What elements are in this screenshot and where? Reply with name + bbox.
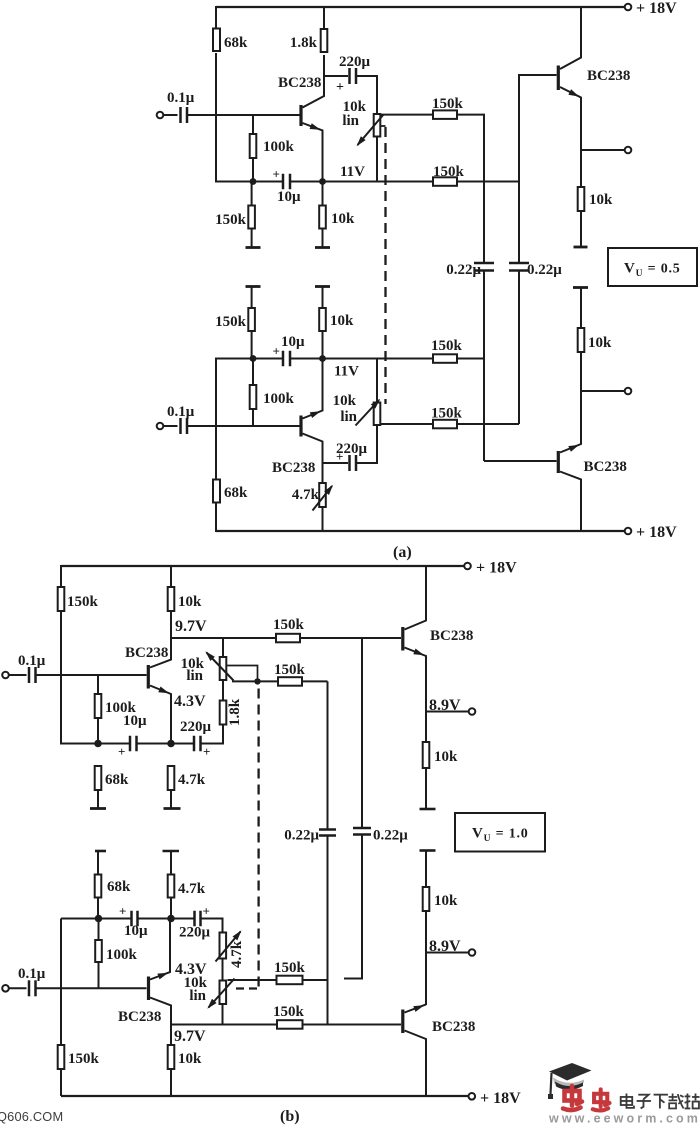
svg-text:lin: lin [189, 988, 206, 1004]
svg-text:+: + [336, 449, 343, 464]
label BC238 Q3 [587, 68, 630, 84]
resistor R9 150k vertical (a bottom) [215, 287, 255, 359]
rheostat R30 arrow [216, 930, 242, 961]
wire emitter to 10k (b right top) [425, 712, 427, 743]
dashed gang line (b) [236, 689, 259, 989]
svg-text:10k: 10k [330, 313, 354, 329]
label 9.7V (b top) [175, 618, 207, 635]
wire row to 4.7k pot (b bottom) [201, 919, 223, 934]
resistor R21 68k (b top) [95, 766, 129, 809]
wire 68k to bias node (a top) [215, 53, 217, 183]
terminal +18V bottom (a) [625, 524, 677, 541]
transistor Q3 collector lead [560, 6, 581, 69]
svg-text:10k: 10k [331, 211, 355, 227]
node bias row dot 2 (a top) [319, 178, 326, 185]
svg-text:4.7k: 4.7k [229, 940, 245, 968]
ground bar (a top left) [246, 246, 261, 249]
svg-text:BC238: BC238 [587, 68, 630, 84]
svg-text:150k: 150k [431, 406, 463, 422]
resistor R20 100k (b top) [95, 675, 137, 744]
svg-text:1.8k: 1.8k [290, 35, 318, 51]
transistor Q1 collector lead [303, 55, 325, 108]
svg-text:150k: 150k [215, 314, 247, 330]
resistor R4 150k (a top wiper row) [432, 96, 464, 119]
ground bar (b right bottom) [420, 849, 436, 852]
svg-text:0.22μ: 0.22μ [284, 828, 319, 844]
wire input to cap (b bottom) [9, 987, 27, 989]
svg-text:10k: 10k [589, 192, 613, 208]
node bias row dot 2 (a bottom) [319, 355, 326, 362]
label BC238 Q4 [584, 459, 627, 475]
resistor R16 10k (a right bottom) [578, 288, 612, 392]
transistor Q6 collector lead [405, 565, 427, 630]
wire 150k row 2 (b top) [232, 680, 328, 682]
wire 10k to ground (b right top) [425, 768, 427, 809]
resistor R1 68k (a top) [213, 29, 248, 52]
wire ground to 10k (b right bottom) [425, 851, 427, 888]
wire base feed bottom-right transistor (a) [484, 460, 557, 462]
wire coupling column right lower (b) [344, 835, 362, 979]
svg-text:+ 18V: + 18V [480, 1090, 521, 1107]
transistor Q2 collector lead [303, 434, 323, 464]
svg-text:BC238: BC238 [432, 1019, 475, 1035]
ground bar (a top mid) [315, 246, 330, 249]
svg-text:Q606.COM: Q606.COM [0, 1109, 63, 1124]
svg-text:www.eeworm.com: www.eeworm.com [548, 1112, 700, 1126]
node bias row dot 1 (a top) [250, 178, 257, 185]
resistor R5 150k (a top bias row) [433, 164, 465, 186]
output tap wire (b top) [426, 711, 469, 713]
svg-text:10μ: 10μ [124, 923, 148, 939]
wire cap to base (b bottom) [36, 987, 147, 989]
svg-text:10μ: 10μ [277, 189, 301, 205]
resistor R13 68k (a bottom) [213, 480, 248, 533]
label BC238 Q5 [125, 645, 168, 661]
transistor Q8 emitter lead [150, 918, 170, 980]
label BC238 Q8 [118, 1009, 161, 1025]
output terminal (b bottom) [469, 949, 476, 956]
svg-text:150k: 150k [431, 338, 463, 354]
svg-text:BC238: BC238 [118, 1009, 161, 1025]
wire bias row right segment (a top) [290, 181, 433, 183]
svg-text:BC238: BC238 [125, 645, 168, 661]
svg-text:(b): (b) [280, 1108, 300, 1125]
svg-text:150k: 150k [67, 594, 99, 610]
wire pot to 1.8k (b top) [222, 681, 224, 701]
terminal +18V bottom (b) [469, 1090, 522, 1107]
wire 220u to pot bottom (a bottom) [356, 425, 377, 464]
svg-text:150k: 150k [433, 164, 465, 180]
svg-text:0.22μ: 0.22μ [446, 262, 481, 278]
svg-text:0.1μ: 0.1μ [167, 90, 195, 106]
svg-text:9.7V: 9.7V [175, 618, 207, 635]
wire +18V top rail (b) [61, 565, 464, 567]
ground bar (b top mid) [164, 807, 181, 810]
resistor R12 100k (a bottom) [250, 359, 295, 427]
wire input to cap (b top) [9, 674, 27, 676]
svg-text:150k: 150k [432, 96, 464, 112]
resistor R31 150k (b row3) [274, 960, 306, 984]
output terminal (b top) [469, 708, 476, 715]
wire cap column left lower (a) [483, 271, 485, 462]
capacitor C5 0.22u right (a) [509, 182, 562, 279]
capacitor C4 0.22u left (a) [446, 262, 494, 278]
watermark logo graduation cap [548, 1063, 592, 1099]
resistor R34 10k (b bottom mid) [168, 1025, 202, 1098]
svg-text:150k: 150k [274, 960, 306, 976]
box Vu=1.0 (b) [455, 813, 545, 852]
svg-text:+ 18V: + 18V [636, 0, 677, 17]
output terminal (a top) [625, 147, 632, 154]
ground bar (b top left) [90, 807, 106, 810]
wire emitter to 10k (a right top) [580, 150, 582, 188]
transistor Q5 BC238 (b top left) base bar [147, 665, 150, 689]
resistor R10 10k vertical (a bottom) [319, 287, 354, 359]
wire collector node to 220u (a bottom) [323, 462, 349, 464]
output tap wire (a top) [581, 149, 625, 151]
resistor R26 10k (b right bottom) [423, 887, 458, 911]
transistor Q3 BC238 (a right top) base bar [557, 66, 560, 91]
label 8.9V (b top) [429, 697, 461, 714]
svg-text:10μ: 10μ [123, 713, 147, 729]
node bias row dot 1 (a bottom) [250, 355, 257, 362]
svg-text:10k: 10k [588, 335, 612, 351]
terminal +18V top (b) [464, 560, 517, 577]
node dot 1 (b top row) [94, 740, 102, 748]
capacitor C7 220u (a bottom) [336, 441, 368, 471]
svg-text:+ 18V: + 18V [476, 560, 517, 577]
transistor Q7 emitter lead [405, 1005, 427, 1013]
transistor Q7 BC238 (b bottom right) base bar [401, 1010, 404, 1034]
transistor Q5 emitter lead [150, 686, 171, 745]
label BC238 Q6 [430, 628, 473, 644]
ground bar (a right top) [574, 246, 588, 249]
svg-text:10k: 10k [434, 893, 458, 909]
svg-text:0.1μ: 0.1μ [18, 966, 46, 982]
svg-text:+: + [118, 744, 125, 759]
wire pot bottom to bias row (a top) [376, 136, 378, 182]
svg-text:150k: 150k [273, 1004, 305, 1020]
svg-text:220μ: 220μ [180, 719, 212, 735]
svg-text:10k: 10k [178, 1051, 202, 1067]
label BC238 Q2 [272, 460, 315, 476]
dashed gang line (a) [381, 126, 386, 404]
ground bar (a right bottom) [573, 286, 588, 289]
capacitor 0.1u input (a top) [167, 90, 195, 123]
node dot 2 (b top row) [167, 740, 175, 748]
input terminal (a top) [157, 112, 164, 119]
svg-text:150k: 150k [274, 662, 306, 678]
svg-text:1.8k: 1.8k [227, 698, 243, 726]
label BC238 Q7 [432, 1019, 475, 1035]
svg-text:150k: 150k [273, 617, 305, 633]
watermark bug glyph 2 [593, 1089, 610, 1110]
capacitor 0.1u input (b top) [18, 653, 46, 683]
resistor R25 10k (b right top) [423, 742, 458, 768]
potentiometer P2 10k lin (a bottom) [333, 393, 381, 425]
node wiper dot (b top) [254, 678, 260, 684]
node dot 1 (b bottom row) [95, 915, 103, 923]
label 4.3V (b top) [174, 693, 206, 710]
wire 220u to pot top (a top) [356, 76, 377, 115]
transistor Q5 collector lead [150, 637, 171, 668]
label 8.9V (b bottom) [429, 938, 461, 955]
svg-text:+: + [336, 80, 344, 95]
ground bar (b bottom 68k) [95, 850, 106, 853]
transistor Q8 BC238 (b bottom left) base bar [147, 977, 150, 1001]
svg-text:150k: 150k [68, 1051, 100, 1067]
wire bias row right segment (a bottom) [290, 358, 433, 360]
svg-text:VU = 0.5: VU = 0.5 [624, 261, 681, 280]
resistor R3 1.8k (a top) [290, 6, 327, 52]
svg-text:68k: 68k [107, 879, 131, 895]
svg-text:+: + [273, 167, 280, 182]
svg-text:68k: 68k [224, 485, 248, 501]
capacitor 0.1u input (a bottom) [167, 404, 195, 434]
svg-text:10k: 10k [178, 594, 202, 610]
resistor R18 10k (b top) [168, 587, 202, 611]
rheostat R30 4.7k pot (b bottom) [220, 933, 246, 969]
resistor R27 150k (b row4) [273, 1004, 305, 1029]
svg-text:10k: 10k [434, 749, 458, 765]
svg-text:+: + [203, 744, 210, 759]
wire input to cap (a bottom) [164, 425, 178, 427]
potentiometer P3 10k lin (b top) [181, 656, 227, 684]
transistor Q3 emitter lead [560, 87, 581, 150]
wire +18V top rail (a) [216, 6, 628, 8]
resistor R8 10k (a right top) [578, 187, 613, 211]
transistor Q4 BC238 (a right bottom) base bar [557, 451, 560, 473]
watermark url www.eeworm.com [548, 1112, 700, 1126]
svg-text:220μ: 220μ [339, 54, 371, 70]
svg-text:68k: 68k [105, 772, 129, 788]
capacitor C9 220u (b top) [180, 719, 212, 759]
wire coupling column left (b) [327, 681, 329, 829]
capacitor C8 10u (b top) [118, 713, 147, 759]
capacitor C2 220u (a top) [336, 54, 371, 95]
pot P3 wiper arrow [205, 651, 233, 680]
output terminal (a bottom) [625, 388, 632, 395]
svg-text:lin: lin [342, 113, 359, 129]
capacitor C12 10u (b bottom) [119, 904, 148, 940]
potentiometer P1 10k lin (a top) [342, 99, 380, 137]
wire collector node to 220u (a top) [324, 75, 348, 77]
transistor Q2 emitter lead [303, 358, 323, 419]
wire coupling column left lower (b) [327, 836, 329, 1025]
svg-text:100k: 100k [263, 391, 295, 407]
terminal +18V top (a) [625, 0, 677, 17]
svg-text:11V: 11V [334, 364, 359, 380]
wire 4.7k pot to 10k pot (b bottom) [222, 959, 224, 982]
wire cap column right lower (a) [518, 271, 520, 425]
capacitor C10 0.22u left (b) [284, 828, 336, 844]
wire rail to 150k (b top left) [60, 565, 62, 588]
svg-text:0.22μ: 0.22μ [373, 828, 408, 844]
svg-text:10k: 10k [333, 393, 357, 409]
svg-text:BC238: BC238 [584, 459, 627, 475]
capacitor C3 10u (a top) [273, 167, 302, 206]
svg-text:4.3V: 4.3V [175, 961, 207, 978]
node dot 2 (b bottom row) [167, 915, 175, 923]
svg-text:BC238: BC238 [430, 628, 473, 644]
ground bar (a bottom left) [246, 285, 261, 288]
resistor R32 100k (b bottom) [95, 919, 137, 989]
wire input to cap (a top) [164, 114, 178, 116]
resistor R11 150k (a bottom bias row) [431, 338, 463, 363]
wire 150k to coupling cap column [457, 115, 484, 263]
input terminal (b top) [2, 672, 9, 679]
wire pot top to bias row (a bottom) [376, 359, 378, 404]
svg-text:68k: 68k [224, 35, 248, 51]
resistor R14 150k (a bottom wiper row) [431, 406, 463, 429]
svg-text:11V: 11V [340, 164, 365, 180]
box Vu=0.5 (a) [608, 248, 697, 286]
input terminal (b bottom) [2, 985, 9, 992]
transistor Q8 collector lead [150, 998, 171, 1026]
svg-text:10μ: 10μ [281, 334, 305, 350]
transistor Q6 emitter lead [405, 648, 427, 712]
resistor R23 1.8k (b top) [220, 698, 243, 726]
wire emitter node row (b top) [61, 743, 223, 745]
transistor Q2 BC238 (a bottom) base bar [299, 416, 302, 437]
transistor Q1 emitter lead [303, 123, 323, 182]
wire 150k column (b top left) [60, 612, 62, 745]
resistor R28 68k (b bottom) [95, 851, 131, 919]
ground bar (b right top) [420, 808, 436, 811]
wire 9.7V row to pot (b top) [222, 638, 224, 658]
wire left rail branch x=216 (a top) [215, 6, 217, 29]
wire base feed top-right transistor (a) [519, 75, 557, 182]
resistor R7 10k vertical (a top) [319, 182, 355, 248]
capacitor 0.1u input (b bottom) [18, 966, 46, 996]
resistor R6 150k vertical (a top) [215, 182, 255, 248]
svg-text:+ 18V: + 18V [636, 524, 677, 541]
wire bias row to base column (a top) [457, 181, 519, 183]
wiper feed wire (b top) [226, 666, 257, 682]
rheostat R15 arrow [313, 485, 334, 511]
wire cap to base (b top) [36, 674, 147, 676]
svg-text:220μ: 220μ [179, 925, 211, 941]
wire 10k to ground (a right top) [580, 211, 582, 246]
svg-text:4.7k: 4.7k [292, 487, 320, 503]
svg-text:150k: 150k [215, 212, 247, 228]
svg-text:9.7V: 9.7V [174, 1028, 206, 1045]
resistor R17 150k (b top left) [58, 587, 99, 611]
resistor R24 150k (b row2) [274, 662, 306, 686]
resistor R19 150k (b 9.7V row) [273, 617, 305, 642]
ground bar (b bottom 4.7k) [163, 850, 180, 853]
svg-text:(a): (a) [393, 544, 412, 561]
wire 10k to tap (b right bottom) [425, 911, 427, 953]
wire rail to 10k (b top) [170, 565, 172, 588]
transistor Q7 collector lead [405, 1031, 427, 1098]
svg-text:100k: 100k [106, 947, 138, 963]
svg-text:lin: lin [186, 668, 203, 684]
svg-text:BC238: BC238 [278, 75, 321, 91]
watermark text dianzi xiazaizhan [621, 1094, 700, 1109]
output tap wire (a bottom) [581, 390, 625, 392]
wire cap to base (a bottom) [187, 425, 300, 427]
label 9.7V (b bottom) [174, 1028, 206, 1045]
wire bias row to cap column (a bottom) [457, 358, 484, 360]
watermark bug glyph 1 [563, 1086, 582, 1110]
rheostat R15 4.7k (a bottom) [292, 463, 326, 532]
svg-text:4.7k: 4.7k [178, 881, 206, 897]
wire 10k to 9.7V node (b top) [170, 612, 172, 638]
wire emitter node row (b bottom) [61, 918, 223, 920]
transistor Q4 emitter lead [560, 391, 581, 453]
wire 9.7V row (b bottom) [170, 1024, 401, 1026]
wire 9.7V row (b top) [171, 637, 401, 639]
watermark Q606.COM [0, 1109, 63, 1124]
resistor R29 4.7k (b bottom) [168, 851, 206, 919]
wire 10k pot to 9.7V row (b bottom) [222, 1005, 224, 1025]
wire left column (b bottom) [60, 919, 62, 1046]
pot P2 wiper arrow [356, 399, 381, 426]
wire bias row left segment (a bottom) [215, 358, 283, 360]
transistor Q4 collector lead [560, 472, 581, 533]
wire +18V bottom rail (b) [61, 1095, 468, 1097]
wire coupling column right (b) [361, 638, 363, 828]
svg-text:0.1μ: 0.1μ [167, 404, 195, 420]
capacitor C6 10u (a bottom) [273, 334, 306, 366]
wire wiper row to cap column (a bottom) [457, 423, 519, 425]
svg-text:0.1μ: 0.1μ [18, 653, 46, 669]
wire cap to base (a top) [187, 114, 300, 116]
capacitor C13 220u (b bottom) [179, 904, 211, 941]
transistor Q1 BC238 (a top) base bar [299, 105, 302, 126]
svg-text:+: + [119, 904, 126, 919]
label BC238 Q1 [278, 75, 321, 91]
input terminal (a bottom) [157, 423, 164, 430]
pot P4 wiper arrow [207, 979, 234, 1009]
wire wiper row (a top) [381, 114, 433, 116]
wire tap to emitter (b right bottom) [425, 953, 427, 1006]
label 11V (a top) [340, 164, 365, 180]
svg-text:+: + [203, 904, 210, 919]
transistor Q6 BC238 (b top right) base bar [401, 627, 404, 651]
label 11V (a bottom) [334, 364, 359, 380]
resistor R33 150k (b bottom left) [58, 1045, 100, 1096]
svg-text:lin: lin [340, 409, 357, 425]
pot P1 wiper arrow [357, 115, 384, 147]
wire 68k column (a bottom) [215, 359, 217, 480]
wire bias row left segment (a top) [215, 181, 283, 183]
resistor R22 4.7k (b top) [168, 766, 206, 809]
label (b) [280, 1108, 300, 1125]
svg-text:VU = 1.0: VU = 1.0 [472, 826, 529, 845]
label 4.3V (b bottom) [175, 961, 207, 978]
potentiometer P4 10k lin (b bottom) [184, 975, 226, 1004]
output tap wire (b bottom) [426, 952, 469, 954]
svg-text:100k: 100k [263, 139, 295, 155]
svg-text:+: + [273, 344, 280, 359]
wire wiper row (b bottom) [228, 979, 328, 981]
svg-text:4.7k: 4.7k [178, 772, 206, 788]
svg-text:4.3V: 4.3V [174, 693, 206, 710]
capacitor C11 0.22u right (b) [353, 828, 408, 844]
resistor R2 100k (a top) [250, 115, 295, 182]
label (a) [393, 544, 412, 561]
wire 1.8k to emitter row (b top) [222, 725, 224, 745]
svg-text:BC238: BC238 [272, 460, 315, 476]
ground bar (a bottom mid) [315, 285, 330, 288]
wire +18V bottom rail (a) [216, 530, 625, 532]
svg-text:0.22μ: 0.22μ [527, 262, 562, 278]
wire wiper row (a bottom) [381, 423, 433, 425]
